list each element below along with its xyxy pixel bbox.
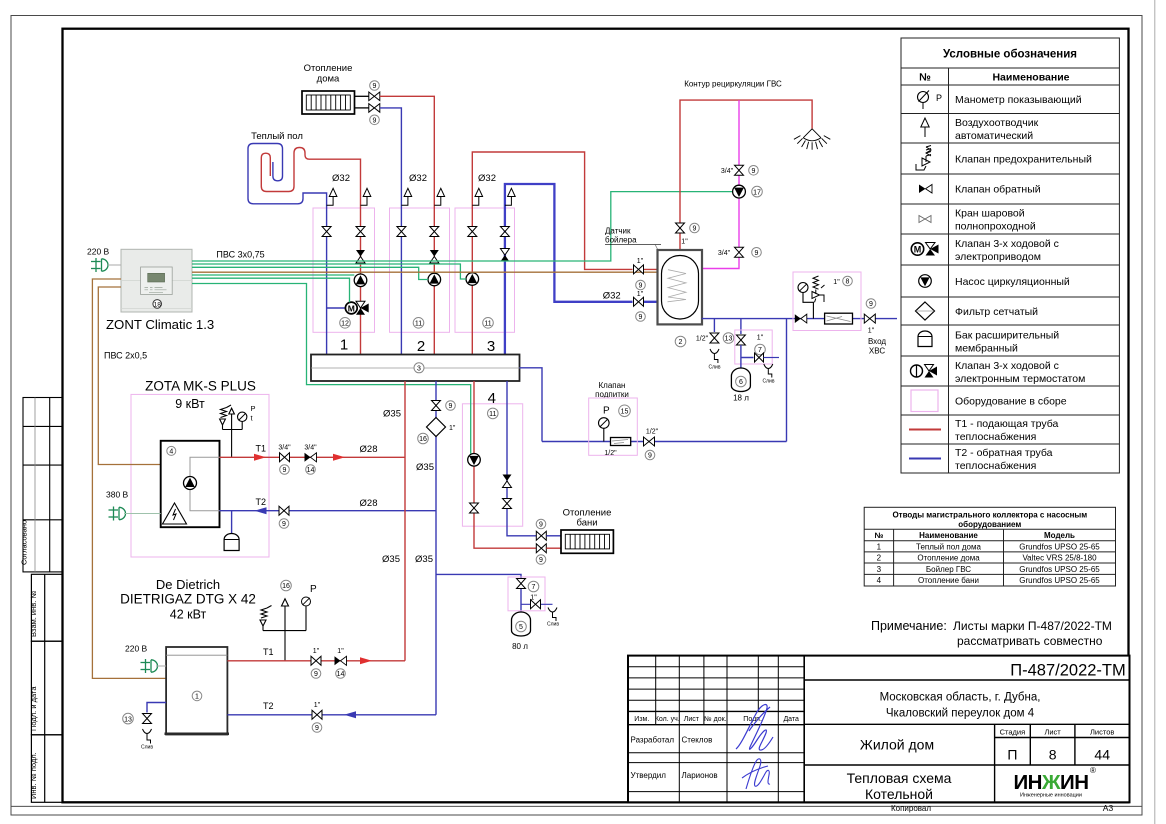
label circle 16 [418,433,429,444]
label circle 11 box2 [413,318,424,329]
tank5 drain symbol [548,608,557,622]
svg-text:электронным термостатом: электронным термостатом [955,373,1085,385]
svg-text:№ док.: № док. [704,716,726,723]
ball valve riser2 blue [397,227,406,237]
DD drain pipe blue [147,703,166,713]
svg-text:Наименование: Наименование [919,531,978,540]
title block right horizontals [804,680,1129,802]
label circle 9 bath bottom [536,555,546,565]
make-up gauge [599,418,610,442]
wire green g5 to valve 12 [192,278,350,302]
wire socket to ZOTA [124,513,161,515]
wire socket to De Dietrich [156,665,166,667]
equipment box ZOTA (pink) [131,394,269,557]
svg-text:17: 17 [753,189,761,196]
valve DD T1 [311,656,321,665]
De Dietrich T2 pipe [227,714,436,716]
svg-text:DIETRIGAZ DTG X 42: DIETRIGAZ DTG X 42 [120,592,256,607]
svg-text:1: 1 [877,542,882,551]
ball valve riser1 blue [322,227,331,237]
svg-text:Grundfos UPSO 25-65: Grundfos UPSO 25-65 [1019,565,1100,574]
svg-text:Стеклов: Стеклов [682,736,713,745]
label circle 5 [516,621,527,632]
wire brown A to De Dietrich [92,279,166,678]
svg-text:4: 4 [169,449,173,456]
legend symbol 3-way thermostat valve [911,365,938,378]
air vent riser 2 blue [401,188,411,205]
svg-text:18 л: 18 л [733,394,749,403]
check valve ZOTA T1 [305,453,317,462]
wire green g3 to pump 2 [192,267,428,279]
svg-text:®: ® [1090,766,1096,775]
sensor leader line [655,244,667,267]
svg-text:Клапан 3-х ходовой с: Клапан 3-х ходовой с [955,238,1059,250]
svg-text:9: 9 [449,403,453,410]
valve DD T2 [312,710,322,719]
svg-text:9: 9 [373,83,377,90]
check valve cold water [795,314,807,323]
svg-text:9: 9 [314,671,318,678]
valve recirculation upper [735,165,744,175]
floor heating loop red [261,148,360,355]
svg-text:А3: А3 [1103,803,1114,813]
pump 3 [466,273,479,286]
blue riser to boilers [435,381,437,715]
svg-text:П: П [1007,747,1017,763]
cold water main blue [702,318,897,320]
svg-text:Воздухоотводчик: Воздухоотводчик [955,117,1039,129]
radiator stub pipes [355,95,369,97]
legend symbol T2 blue line [909,458,941,460]
svg-text:12: 12 [341,321,349,328]
air vent riser 3 red [472,188,482,205]
svg-text:7: 7 [532,584,536,591]
svg-text:Слив: Слив [547,622,559,628]
svg-text:16: 16 [282,583,290,590]
svg-text:Ø32: Ø32 [332,173,350,184]
svg-text:7: 7 [758,347,762,354]
svg-text:M: M [348,303,355,313]
wire green g6 to pump 4 [192,284,471,454]
wire brown B to ZOTA [98,287,160,465]
svg-text:Инв. № подл.: Инв. № подл. [29,752,38,799]
svg-text:Взам. инв. №: Взам. инв. № [29,591,38,637]
svg-text:Модель: Модель [1044,531,1075,540]
svg-text:11: 11 [415,321,422,328]
svg-text:2: 2 [417,338,425,355]
label circle 15 [619,405,631,417]
svg-text:оборудованием: оборудованием [958,520,1021,529]
svg-text:Т1 - подающая труба: Т1 - подающая труба [955,418,1058,430]
pipe T1 radiator to riser 2 (red) [380,96,435,354]
title block left signature grid [628,656,804,803]
valve group4 blue [503,499,512,509]
svg-text:Копировал: Копировал [891,804,931,813]
svg-text:1": 1" [337,648,344,655]
svg-text:5: 5 [519,624,523,631]
inlet safety valve [812,276,825,302]
inlet main valve [864,314,875,323]
svg-text:Клапан: Клапан [599,381,626,390]
valve boiler coil supply [634,265,644,274]
ZOTA safety group [220,405,243,457]
svg-text:16: 16 [419,436,427,443]
svg-text:9: 9 [539,557,543,564]
wire green g2 to pump 3 [192,264,466,279]
socket 220V ZONT [91,258,108,272]
svg-text:электроприводом: электроприводом [955,251,1041,263]
tank5 drain pipe [521,603,553,605]
svg-text:Датчик: Датчик [605,227,631,236]
svg-text:3: 3 [487,338,495,355]
wire green g1 to pump 17 [192,192,733,261]
check valve riser3 blue upflow [500,249,509,262]
check valve group4 blue [503,475,512,488]
legend table frame (Условные обозначения) [901,38,1119,473]
wire green g4 to pump 1 [192,274,354,276]
inlet gauge [798,283,813,319]
legend symbol check valve [919,185,932,194]
label circle 9 T1 [280,465,290,475]
svg-text:6: 6 [739,379,743,386]
svg-text:1": 1" [314,702,321,709]
svg-text:9: 9 [755,250,759,257]
svg-text:Отопление бани: Отопление бани [918,576,979,585]
label circle 7 tank6 [755,344,766,355]
svg-text:Чкаловский переулок дом 4: Чкаловский переулок дом 4 [886,708,1035,720]
label circle 9 bath top [536,519,546,529]
air vent riser 1 red [361,188,371,205]
De Dietrich safety group [260,599,306,661]
svg-text:Ø28: Ø28 [360,498,378,509]
strainer 16 on blue riser [427,418,446,437]
equipment box 1 (pink) [313,208,375,332]
svg-text:14: 14 [337,671,345,678]
pump 17 recirculation [733,185,746,198]
svg-text:ПВС 2х0,5: ПВС 2х0,5 [104,351,147,361]
svg-text:Ø32: Ø32 [409,173,427,184]
boiler drain symbol [710,349,719,363]
svg-text:Grundfos UPSO 25-65: Grundfos UPSO 25-65 [1019,576,1100,585]
svg-text:220 В: 220 В [87,247,110,257]
air vent riser 3 blue [505,188,515,205]
flow arrow DD T2 left [344,711,356,718]
svg-text:Лист: Лист [1044,728,1061,737]
red riser to boilers [404,381,406,661]
recirculation pipe magenta [702,100,739,268]
svg-text:Клапан предохранительный: Клапан предохранительный [955,154,1092,166]
svg-text:Изм.: Изм. [634,716,649,723]
svg-text:15: 15 [621,409,629,416]
socket 220V De Dietrich [141,659,158,673]
label circle 13 boiler drain [723,333,734,344]
svg-text:4: 4 [488,390,496,407]
svg-text:4: 4 [877,576,882,585]
svg-text:Ø35: Ø35 [383,409,401,420]
flow arrow DD T1 [360,657,372,664]
svg-text:9 кВт: 9 кВт [175,397,205,411]
DD drain symbol [143,729,152,744]
svg-text:220 В: 220 В [125,644,148,654]
tank5 pink box [508,577,545,611]
svg-text:18: 18 [154,302,162,309]
svg-text:П-487/2022-ТМ: П-487/2022-ТМ [1010,662,1126,680]
label circle 9 recirc upper [749,166,759,176]
label circle 2 boiler [675,336,686,347]
label circle 11 box4 [488,408,499,419]
svg-text:De Dietrich: De Dietrich [156,577,220,592]
tank5 drain valve [531,600,541,609]
svg-text:Манометр показывающий: Манометр показывающий [955,94,1082,106]
svg-text:8: 8 [846,279,850,286]
svg-text:№: № [874,531,883,540]
svg-text:T1: T1 [263,647,274,657]
pipe riser 3 red from collector to boiler coil [472,152,668,355]
collector to feed line blue [520,368,543,442]
left stamp section Подл. и дата [31,641,62,735]
tank 6 pipe [741,345,754,369]
svg-text:автоматический: автоматический [955,130,1033,142]
svg-text:1/2": 1/2" [646,429,659,436]
legend symbol strainer [916,302,935,320]
bath radiator stubs [546,535,561,537]
svg-text:1": 1" [681,239,688,246]
legend symbol assembled equipment pink box [911,390,938,412]
3-way motor valve M group 12 [327,301,369,314]
svg-text:9: 9 [639,283,643,290]
svg-text:1": 1" [637,258,644,265]
svg-text:1": 1" [868,328,875,335]
svg-text:1/2": 1/2" [604,450,617,457]
valve bath red [536,544,546,553]
ZOTA expansion tank stem [231,511,233,534]
pump 2 [428,273,441,286]
svg-text:Ø32: Ø32 [603,291,621,302]
check valve riser2 red [430,250,439,263]
label circle 9 make-up [645,450,655,460]
svg-text:Слив: Слив [709,365,721,371]
ball valve riser1 red [356,227,365,237]
svg-text:Ларионов: Ларионов [682,771,718,780]
pipe T2 radiator to riser 2 (blue) [380,108,402,355]
socket 380V [109,507,126,521]
svg-text:ZOTA MK-S PLUS: ZOTA MK-S PLUS [145,379,256,394]
svg-text:Клапан 3-х ходовой с: Клапан 3-х ходовой с [955,360,1059,372]
svg-text:Подл. и дата: Подл. и дата [29,686,38,731]
svg-text:9: 9 [539,522,543,529]
DHW supply red pipe [680,100,812,250]
tank 6 drain valve [755,353,764,362]
svg-text:9: 9 [648,453,652,460]
boiler drain branch [713,319,715,332]
label circle 14 T1 [306,465,316,475]
wire brown to boiler sensor [192,271,666,273]
svg-text:1": 1" [757,335,764,342]
equipment box 3 (pink) [455,208,515,332]
label circle 9 coil supply [636,280,646,290]
svg-text:9: 9 [373,118,377,125]
De Dietrich gauge [302,597,311,606]
flow arrow T2 left [255,507,267,514]
svg-text:полнопроходной: полнопроходной [955,221,1036,233]
svg-text:Котельной: Котельной [865,786,933,802]
svg-text:M: M [914,245,922,255]
svg-text:2: 2 [679,339,683,346]
svg-text:Слив: Слив [141,745,153,751]
svg-text:Утвердил: Утвердил [631,771,667,780]
svg-text:Р: Р [936,93,942,103]
svg-text:8: 8 [1049,747,1057,763]
svg-text:№: № [919,72,931,84]
legend symbol ball valve [919,216,931,223]
flow arrow T1 b [333,454,345,461]
svg-text:бойлера: бойлера [605,236,637,245]
svg-text:Теплый пол: Теплый пол [251,131,303,142]
svg-text:9: 9 [693,226,697,233]
legend symbol T1 red line [909,429,941,431]
make-up reducer [611,438,631,446]
svg-text:Отопление дома: Отопление дома [917,554,980,563]
left stamp upper table (Согласовано block) [23,398,63,572]
label circle 17 [752,186,763,197]
svg-text:Бойлер ГВС: Бойлер ГВС [926,565,971,574]
svg-text:Листов: Листов [1090,728,1114,737]
svg-text:Жилой дом: Жилой дом [860,737,934,753]
svg-text:2: 2 [877,554,882,563]
bottom strip line above Копировал [11,805,1142,807]
page scan edge line right [1154,0,1156,824]
legend symbol pump [919,275,932,288]
radiator bath heating [561,530,613,553]
ball valve riser2 red [430,227,439,237]
label circle 7 tank5 [528,581,539,592]
svg-text:ZONT Climatic 1.3: ZONT Climatic 1.3 [106,317,214,332]
svg-text:Отопление: Отопление [304,63,353,74]
check valve DD T1 [335,656,347,665]
svg-text:11: 11 [484,321,491,328]
svg-text:рассматривать совместно: рассматривать совместно [957,634,1103,648]
svg-text:13: 13 [725,336,733,343]
collector equipment table frame [864,507,1115,586]
label circle 3 on collector [414,363,424,373]
svg-text:3/4": 3/4" [721,168,734,175]
ZOTA warning triangle [163,503,187,524]
svg-text:Ø35: Ø35 [382,554,400,565]
title block main divider [803,656,805,803]
valve 9 on radiator supply [369,92,380,101]
valve group4 red [470,503,479,513]
svg-text:Клапан обратный: Клапан обратный [955,184,1041,196]
legend symbol air vent [921,118,929,137]
ZOTA expansion tank [224,534,239,551]
svg-text:Ø35: Ø35 [416,462,434,473]
label circle 9 DD T1 [311,669,321,679]
svg-text:Разработал: Разработал [631,736,675,745]
svg-text:Дата: Дата [783,716,799,723]
tank 6 drain symbol [764,364,773,378]
DD drain valve [143,714,152,724]
label circle 9 recirc lower [752,248,762,258]
label circle 9 DD T2 [312,723,322,733]
svg-text:Согласовано: Согласовано [20,520,29,565]
svg-text:44: 44 [1094,747,1110,763]
De Dietrich T1 pipe [227,660,405,662]
tank5 valve [517,579,526,589]
ZONT controller device [121,249,192,312]
label circle 12 [340,318,351,329]
tank 6 valve [736,335,745,345]
title block outer frame [628,656,1130,803]
svg-text:Инженерные инновации: Инженерные инновации [1020,793,1082,799]
svg-text:Листы марки П-487/2022-ТМ: Листы марки П-487/2022-ТМ [953,619,1112,633]
flow arrow T1 a [254,454,266,461]
svg-text:Слив: Слив [763,379,775,385]
svg-text:3/4": 3/4" [278,445,291,452]
ball valve riser3 red [468,227,477,237]
svg-text:Grundfos UPSO 25-65: Grundfos UPSO 25-65 [1019,542,1100,551]
ZOTA boiler body [161,441,220,527]
svg-text:Условные обозначения: Условные обозначения [943,49,1077,61]
tank5 branch pipe [436,574,521,612]
label circle 4 in ZOTA [167,446,176,455]
valve recirculation lower [735,247,744,257]
svg-text:теплоснабжения: теплоснабжения [955,431,1036,443]
valve on blue riser [432,401,441,411]
svg-text:3/4": 3/4" [718,250,731,257]
tank 6 drain line [764,357,780,359]
svg-text:Теплый пол дома: Теплый пол дома [916,542,981,551]
svg-text:T2: T2 [263,701,274,711]
label circle 1 in boiler [192,691,202,701]
svg-text:9: 9 [282,521,286,528]
left stamp section Инв. № подл. [31,735,62,803]
ball valve riser3 blue [500,227,509,237]
ZOTA internal pump [184,477,197,490]
svg-text:Ø32: Ø32 [478,173,496,184]
label circle 9 inlet [866,299,876,309]
svg-text:Контур рециркуляции ГВС: Контур рециркуляции ГВС [684,80,782,89]
svg-text:Кран шаровой: Кран шаровой [955,208,1025,220]
svg-text:Кол. уч.: Кол. уч. [655,716,680,723]
svg-text:Т2 - обратная труба: Т2 - обратная труба [955,447,1053,459]
svg-text:1": 1" [449,425,456,432]
ZOTA gauge [238,412,247,421]
svg-text:бани: бани [576,518,597,529]
svg-text:9: 9 [315,725,319,732]
DHW boiler tank [658,250,703,324]
label circle 13 DD [123,713,134,724]
svg-text:Московская область, г. Дубна,: Московская область, г. Дубна, [880,692,1041,704]
svg-text:Ø35: Ø35 [415,554,433,565]
valve bath blue [536,531,546,540]
svg-text:3/4": 3/4" [304,445,317,452]
label circle 11 box3 [483,318,494,329]
svg-text:T1: T1 [256,444,267,454]
label circle 6 [736,376,747,387]
check valve riser1 red [356,250,365,263]
svg-text:Наименование: Наименование [992,72,1069,84]
ZOTA T2 pipe [220,510,437,512]
signature scribble 1 [736,705,773,751]
svg-text:380 В: 380 В [106,490,129,500]
svg-text:9: 9 [283,467,287,474]
svg-text:1": 1" [637,291,644,298]
make-up riser blue [786,319,788,442]
svg-text:3: 3 [417,366,421,373]
boiler drain valve [710,333,719,343]
group4 red pipe [474,381,537,548]
svg-text:9: 9 [869,301,873,308]
